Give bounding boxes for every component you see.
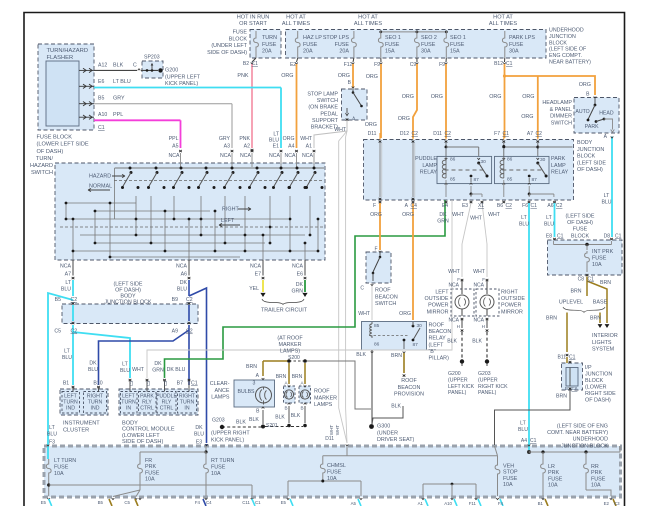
svg-text:BLU: BLU [194, 431, 204, 437]
svg-text:B12: B12 [494, 61, 503, 67]
svg-text:(UPPER: (UPPER [448, 377, 468, 383]
svg-text:BLK: BLK [356, 352, 366, 358]
svg-text:E1: E1 [273, 144, 279, 150]
svg-text:OR START: OR START [239, 21, 267, 27]
svg-text:C2: C2 [412, 131, 419, 137]
svg-text:LAMP: LAMP [551, 163, 566, 169]
svg-text:JUNCTION BLOCK: JUNCTION BLOCK [104, 300, 151, 306]
svg-text:GRY: GRY [219, 136, 231, 142]
svg-text:LAMPS: LAMPS [314, 402, 333, 408]
svg-text:B: B [565, 386, 568, 391]
svg-text:C2: C2 [536, 131, 543, 137]
svg-text:PNK: PNK [237, 73, 248, 79]
svg-text:S200: S200 [288, 355, 300, 361]
svg-text:WHT: WHT [452, 212, 465, 218]
svg-text:CTRL: CTRL [140, 405, 154, 411]
svg-text:IND: IND [66, 405, 75, 411]
svg-text:GRN: GRN [291, 288, 303, 294]
svg-text:86: 86 [374, 342, 380, 348]
svg-text:LT: LT [520, 421, 526, 427]
svg-text:C2: C2 [445, 131, 452, 137]
svg-text:NCA: NCA [250, 264, 261, 270]
svg-text:FUSE: FUSE [303, 42, 318, 48]
svg-text:D11: D11 [325, 436, 334, 442]
svg-text:FUSE: FUSE [262, 42, 277, 48]
svg-text:SWITCH: SWITCH [375, 301, 396, 307]
svg-text:WHT: WHT [358, 311, 371, 317]
svg-text:MARKER: MARKER [278, 342, 301, 348]
svg-text:BLU: BLU [62, 355, 72, 361]
svg-text:ORG: ORG [366, 74, 378, 80]
svg-text:LT: LT [546, 215, 552, 221]
svg-text:SIDE OF DASH): SIDE OF DASH) [207, 50, 247, 56]
svg-text:OF DASH): OF DASH) [37, 149, 64, 155]
svg-text:C1: C1 [588, 277, 595, 283]
svg-text:NCA: NCA [60, 264, 71, 270]
svg-text:LIGHTS: LIGHTS [592, 340, 612, 346]
svg-text:15A: 15A [450, 49, 460, 55]
svg-text:RT TURN: RT TURN [211, 458, 234, 464]
svg-text:NCA: NCA [169, 153, 180, 159]
svg-text:TURN/: TURN/ [36, 156, 54, 162]
svg-text:C8: C8 [578, 277, 585, 283]
svg-text:(ON BRAKE: (ON BRAKE [308, 105, 338, 111]
svg-text:A5: A5 [351, 501, 357, 506]
svg-text:LR: LR [548, 464, 555, 470]
svg-text:UNDERHOOD: UNDERHOOD [549, 28, 584, 34]
svg-text:G200: G200 [165, 68, 178, 74]
svg-text:20A: 20A [262, 49, 272, 55]
svg-text:(LOWER LEFT SIDE: (LOWER LEFT SIDE [37, 142, 89, 148]
svg-text:UPLEVEL: UPLEVEL [559, 300, 583, 306]
svg-text:HOT AT: HOT AT [286, 15, 306, 21]
svg-text:OUTSIDE: OUTSIDE [501, 296, 525, 302]
svg-text:PRK: PRK [145, 464, 156, 470]
svg-text:PUDDLE: PUDDLE [415, 156, 437, 162]
svg-text:D11: D11 [433, 131, 442, 137]
svg-text:B10: B10 [93, 381, 102, 387]
svg-text:B5: B5 [98, 500, 104, 505]
svg-text:10A: 10A [591, 483, 601, 489]
svg-text:STOP LPS: STOP LPS [323, 35, 350, 41]
svg-text:BLOCK: BLOCK [549, 40, 567, 46]
svg-text:F4: F4 [195, 500, 201, 505]
svg-text:SEO 1: SEO 1 [385, 35, 401, 41]
svg-text:ORG: ORG [338, 73, 350, 79]
svg-text:LT: LT [64, 349, 70, 355]
svg-text:(LOWER: (LOWER [585, 385, 607, 391]
svg-text:HAZARD: HAZARD [89, 174, 111, 180]
svg-text:RIGHT: RIGHT [222, 207, 239, 213]
svg-text:B11: B11 [557, 355, 566, 361]
svg-text:86: 86 [507, 157, 513, 163]
svg-text:C: C [360, 286, 364, 292]
svg-text:DK: DK [89, 361, 97, 367]
svg-text:BLU: BLU [120, 368, 130, 374]
svg-text:BLU: BLU [47, 431, 57, 437]
svg-text:E5: E5 [41, 500, 47, 505]
svg-text:KICK PANEL): KICK PANEL) [165, 81, 198, 87]
svg-text:C4: C4 [411, 203, 418, 209]
svg-text:RELAY: RELAY [551, 170, 569, 176]
svg-text:E5: E5 [281, 500, 287, 505]
svg-text:C3: C3 [614, 501, 620, 506]
svg-text:NCA: NCA [473, 318, 484, 324]
svg-text:B5: B5 [98, 96, 104, 102]
svg-text:COMT. NEAR BATTERY): COMT. NEAR BATTERY) [547, 430, 608, 436]
svg-text:C2: C2 [506, 203, 513, 209]
svg-text:HEAD: HEAD [599, 111, 614, 117]
svg-text:RELAY: RELAY [429, 336, 447, 342]
svg-text:E7: E7 [255, 272, 261, 278]
svg-text:C5: C5 [54, 329, 61, 335]
svg-text:BRN: BRN [590, 316, 601, 322]
svg-text:NCA: NCA [176, 264, 187, 270]
svg-text:BLU: BLU [518, 427, 528, 433]
svg-text:D12: D12 [400, 131, 409, 137]
svg-text:FUSE: FUSE [327, 469, 342, 475]
svg-text:ORG: ORG [431, 94, 443, 100]
svg-text:GRN: GRN [437, 218, 449, 224]
svg-text:B9: B9 [172, 297, 178, 303]
svg-text:D11: D11 [368, 131, 377, 137]
svg-text:NCA: NCA [448, 318, 459, 324]
svg-text:YEL: YEL [249, 286, 259, 292]
svg-text:PARK: PARK [585, 124, 599, 130]
svg-text:FUSE: FUSE [592, 256, 607, 262]
svg-text:ORG: ORG [398, 116, 410, 122]
svg-text:ORG: ORG [521, 114, 533, 120]
svg-text:FUSE: FUSE [573, 227, 588, 233]
svg-text:ALL TIMES: ALL TIMES [282, 21, 311, 27]
svg-text:NCA: NCA [269, 153, 280, 159]
svg-text:E6: E6 [297, 272, 303, 278]
svg-text:JUNCTION BLOCK: JUNCTION BLOCK [561, 443, 608, 449]
svg-text:H: H [457, 324, 460, 329]
svg-text:BLU: BLU [519, 221, 529, 227]
svg-text:FLASHER: FLASHER [47, 55, 74, 61]
svg-text:X1: X1 [478, 203, 484, 209]
svg-text:E4: E4 [442, 203, 448, 209]
svg-text:CLEAR-: CLEAR- [210, 381, 230, 387]
svg-text:30: 30 [481, 159, 487, 165]
svg-text:FUSE: FUSE [54, 465, 69, 471]
svg-text:IN: IN [126, 405, 131, 411]
svg-text:G300: G300 [377, 424, 390, 430]
svg-text:BLK: BLK [275, 415, 285, 421]
svg-text:C1: C1 [531, 203, 538, 209]
svg-text:A4: A4 [521, 438, 527, 444]
svg-text:(UPPER RIGHT: (UPPER RIGHT [211, 431, 250, 437]
svg-text:NCA: NCA [285, 153, 296, 159]
svg-text:30A: 30A [421, 49, 431, 55]
svg-text:PARK LPS: PARK LPS [509, 35, 535, 41]
svg-text:DIMMER: DIMMER [550, 114, 572, 120]
svg-text:F11: F11 [469, 501, 477, 506]
svg-text:H: H [482, 324, 485, 329]
svg-text:OF DASH): OF DASH) [567, 220, 593, 226]
svg-text:PANEL): PANEL) [448, 390, 467, 396]
svg-text:WHT: WHT [300, 136, 313, 142]
svg-text:TRAILER CIRCUIT: TRAILER CIRCUIT [261, 308, 308, 314]
svg-text:C1: C1 [191, 381, 198, 387]
svg-text:GRY: GRY [113, 96, 125, 102]
svg-text:BLU: BLU [88, 367, 98, 373]
svg-text:BRN: BRN [546, 316, 557, 322]
svg-text:G200: G200 [448, 371, 461, 377]
svg-text:C6: C6 [572, 386, 578, 391]
svg-text:(UPPER LEFT: (UPPER LEFT [165, 74, 201, 80]
svg-text:BLU: BLU [601, 200, 611, 206]
svg-text:ORG: ORG [402, 212, 414, 218]
svg-text:15A: 15A [385, 49, 395, 55]
svg-text:C5: C5 [124, 500, 130, 505]
svg-text:C: C [133, 63, 137, 69]
svg-text:LT TURN: LT TURN [54, 458, 76, 464]
svg-text:TURN/HAZARD: TURN/HAZARD [47, 48, 89, 54]
svg-text:C1: C1 [569, 355, 576, 361]
svg-text:CLUSTER: CLUSTER [63, 427, 89, 433]
svg-text:BULBS: BULBS [237, 389, 255, 395]
svg-text:FUSE BLOCK: FUSE BLOCK [37, 135, 73, 141]
svg-text:BRN: BRN [556, 394, 567, 400]
svg-text:C1: C1 [530, 438, 537, 444]
svg-text:CTRL: CTRL [160, 405, 174, 411]
svg-text:BEACON: BEACON [398, 385, 421, 391]
svg-text:BODY: BODY [577, 140, 593, 146]
svg-text:C2: C2 [71, 297, 78, 303]
svg-text:INTERIOR: INTERIOR [592, 333, 618, 339]
svg-text:RIGHT KICK: RIGHT KICK [478, 384, 508, 390]
svg-text:A7: A7 [65, 272, 71, 278]
svg-text:DRIVER SEAT): DRIVER SEAT) [377, 437, 415, 443]
svg-text:F3: F3 [49, 440, 55, 446]
svg-text:DK: DK [154, 361, 162, 367]
svg-text:WHT: WHT [488, 212, 501, 218]
svg-text:SIDE OF DASH): SIDE OF DASH) [122, 439, 163, 445]
svg-text:F7: F7 [494, 131, 500, 137]
svg-text:3: 3 [253, 381, 256, 387]
svg-text:87: 87 [474, 177, 480, 183]
svg-text:87: 87 [532, 177, 538, 183]
svg-text:ROOF: ROOF [429, 323, 445, 329]
svg-text:DK: DK [439, 212, 447, 218]
svg-text:C2: C2 [186, 297, 193, 303]
svg-text:ORG: ORG [579, 82, 591, 88]
svg-text:A6: A6 [547, 203, 553, 209]
svg-text:A1: A1 [418, 501, 424, 506]
svg-text:(AT ROOF: (AT ROOF [277, 336, 303, 342]
svg-text:85: 85 [450, 177, 456, 183]
svg-text:STOP: STOP [503, 470, 518, 476]
svg-text:WHT: WHT [329, 425, 334, 436]
svg-text:E8: E8 [546, 234, 552, 240]
svg-text:C1: C1 [615, 234, 622, 240]
svg-text:BLOCK: BLOCK [577, 154, 596, 160]
svg-text:NCA: NCA [220, 153, 231, 159]
svg-text:F12: F12 [344, 62, 353, 68]
svg-text:(LEFT: (LEFT [429, 342, 445, 348]
svg-text:INSTRUMENT: INSTRUMENT [63, 421, 100, 427]
svg-text:BRN: BRN [292, 374, 303, 380]
svg-text:C2: C2 [186, 329, 193, 335]
svg-text:JUNCTION: JUNCTION [585, 372, 612, 378]
svg-text:HOT IN RUN: HOT IN RUN [237, 15, 270, 21]
svg-text:10A: 10A [548, 483, 558, 489]
svg-text:KICK PANEL): KICK PANEL) [211, 437, 244, 443]
svg-text:10A: 10A [503, 482, 513, 488]
svg-text:LT: LT [49, 425, 55, 431]
svg-text:A1: A1 [306, 144, 312, 150]
svg-text:FUSE: FUSE [503, 476, 518, 482]
svg-text:ROOF: ROOF [375, 288, 391, 294]
svg-text:BLOCK: BLOCK [571, 233, 590, 239]
svg-text:POWER: POWER [428, 303, 448, 309]
svg-text:FUSE: FUSE [233, 30, 248, 36]
svg-text:(UPPER: (UPPER [478, 377, 498, 383]
svg-text:C1: C1 [506, 61, 513, 67]
svg-text:TURN: TURN [262, 35, 277, 41]
svg-text:ORG: ORG [365, 122, 377, 128]
svg-text:IN: IN [184, 405, 189, 411]
svg-text:FR: FR [145, 458, 152, 464]
svg-text:LEFT: LEFT [221, 218, 235, 224]
svg-text:BRN: BRN [276, 374, 287, 380]
svg-text:CONTROL MODULE: CONTROL MODULE [122, 427, 175, 433]
svg-text:(LEFT SIDE: (LEFT SIDE [566, 214, 595, 220]
svg-text:F9: F9 [439, 62, 445, 68]
svg-text:FUSE: FUSE [450, 42, 465, 48]
svg-text:ORG: ORG [489, 94, 501, 100]
svg-text:PNK: PNK [239, 136, 250, 142]
svg-text:30: 30 [417, 323, 423, 329]
svg-text:SWITCH: SWITCH [317, 98, 338, 104]
svg-text:INT PRK: INT PRK [592, 249, 614, 255]
svg-text:LT: LT [521, 215, 527, 221]
svg-text:C1: C1 [98, 125, 105, 131]
svg-text:CHMSL: CHMSL [327, 463, 346, 469]
svg-text:HOT AT: HOT AT [493, 15, 513, 21]
svg-text:SWITCH: SWITCH [31, 170, 53, 176]
svg-text:PROVISION: PROVISION [394, 392, 424, 398]
svg-text:ANCE: ANCE [215, 388, 230, 394]
svg-text:G203: G203 [212, 418, 225, 424]
svg-text:B5: B5 [55, 297, 61, 303]
svg-text:“B”: “B” [429, 349, 436, 355]
svg-text:UNDERHOOD: UNDERHOOD [573, 437, 608, 443]
svg-text:RIGHT SIDE: RIGHT SIDE [585, 391, 616, 397]
svg-text:NCA: NCA [448, 283, 459, 289]
svg-text:C11: C11 [242, 500, 250, 505]
svg-text:WHT: WHT [132, 367, 145, 373]
svg-text:F9: F9 [374, 62, 380, 68]
svg-text:ORG: ORG [281, 73, 293, 79]
svg-text:BEACON: BEACON [375, 294, 398, 300]
svg-text:ORG: ORG [399, 311, 411, 317]
svg-text:F4: F4 [498, 501, 504, 506]
svg-text:10A: 10A [592, 262, 602, 268]
svg-text:A7: A7 [527, 131, 533, 137]
svg-text:WHT: WHT [448, 269, 461, 275]
svg-text:C9: C9 [410, 62, 417, 68]
svg-text:LEFT: LEFT [435, 290, 449, 296]
svg-text:DK: DK [296, 282, 304, 288]
svg-text:LT: LT [122, 362, 128, 368]
svg-text:HAZARD: HAZARD [30, 163, 53, 169]
svg-text:BODY: BODY [122, 421, 138, 427]
svg-text:BRN: BRN [571, 289, 582, 295]
svg-text:A2: A2 [244, 144, 250, 150]
svg-text:BRACKET): BRACKET) [311, 125, 338, 131]
svg-text:C2: C2 [556, 203, 563, 209]
svg-text:LAMPS): LAMPS) [280, 349, 300, 355]
svg-text:PRK: PRK [548, 470, 559, 476]
svg-text:PPL: PPL [169, 136, 179, 142]
svg-text:BRN: BRN [391, 353, 402, 359]
svg-text:NORMAL: NORMAL [89, 184, 112, 190]
svg-text:OUTSIDE: OUTSIDE [425, 296, 449, 302]
svg-text:87: 87 [413, 342, 419, 348]
svg-text:(UNDER LEFT: (UNDER LEFT [211, 43, 247, 49]
svg-text:G203: G203 [478, 371, 491, 377]
svg-text:C1: C1 [255, 500, 261, 505]
svg-text:POWER: POWER [501, 303, 521, 309]
svg-text:I/P: I/P [585, 365, 592, 371]
svg-text:B7: B7 [177, 381, 183, 387]
svg-text:PANEL): PANEL) [478, 390, 497, 396]
svg-text:LT BLU: LT BLU [113, 79, 131, 85]
svg-text:D8: D8 [604, 234, 611, 240]
svg-text:LAMPS: LAMPS [211, 395, 230, 401]
svg-text:BLK: BLK [291, 413, 301, 419]
svg-text:IND: IND [91, 405, 100, 411]
svg-text:PRK: PRK [591, 470, 602, 476]
svg-text:F: F [374, 247, 377, 253]
svg-text:ENG COMPT.: ENG COMPT. [549, 53, 582, 59]
svg-text:BLK: BLK [236, 420, 246, 426]
svg-text:FUSE: FUSE [211, 465, 226, 471]
svg-text:OF DASH): OF DASH) [577, 167, 603, 173]
svg-text:BLU: BLU [544, 221, 554, 227]
svg-text:NCA: NCA [240, 153, 251, 159]
svg-text:B1: B1 [63, 381, 69, 387]
svg-text:10A: 10A [145, 477, 155, 483]
svg-text:C3: C3 [146, 380, 151, 386]
svg-text:ORG: ORG [522, 94, 534, 100]
svg-text:B1: B1 [538, 501, 544, 506]
svg-text:(LEFT SIDE OF: (LEFT SIDE OF [549, 47, 587, 53]
svg-text:FUSE: FUSE [548, 476, 563, 482]
svg-text:WHT: WHT [470, 216, 483, 222]
svg-text:BLU: BLU [61, 286, 71, 292]
svg-text:LT: LT [604, 193, 610, 199]
svg-text:C3: C3 [163, 380, 168, 386]
svg-text:BLK: BLK [472, 339, 482, 345]
svg-text:ORG: ORG [283, 136, 295, 142]
svg-text:FUSE: FUSE [421, 42, 436, 48]
svg-text:F: F [482, 277, 485, 282]
svg-text:BLK: BLK [249, 417, 259, 423]
svg-text:BRN: BRN [600, 280, 611, 286]
svg-text:BLK: BLK [391, 404, 401, 410]
svg-text:LEFT KICK: LEFT KICK [448, 384, 475, 390]
svg-text:85: 85 [507, 177, 513, 183]
svg-text:LT: LT [65, 280, 71, 286]
svg-text:ALL TIMES: ALL TIMES [354, 21, 383, 27]
svg-text:20A: 20A [303, 49, 313, 55]
svg-text:BRN: BRN [246, 364, 257, 370]
svg-text:FUSE: FUSE [509, 42, 524, 48]
